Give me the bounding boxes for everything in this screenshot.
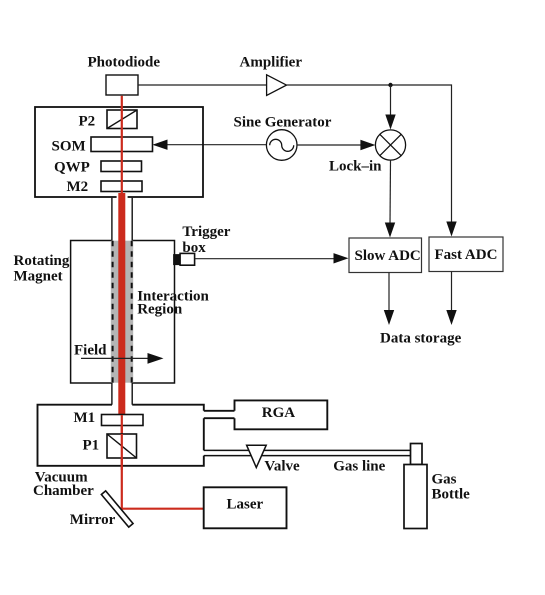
QWP box [101, 161, 142, 172]
arrowhead into mixer top [385, 115, 395, 130]
polarizer P2 [107, 110, 137, 129]
svg-text:Fast ADC: Fast ADC [435, 247, 498, 263]
svg-text:Rotating: Rotating [14, 253, 70, 269]
svg-text:Amplifier: Amplifier [240, 55, 303, 71]
arrowhead into Fast ADC [446, 222, 456, 237]
beam (thick red) through interaction region M2 to M1 [118, 193, 125, 415]
vacuum chamber [38, 405, 204, 466]
beam tube lower section walls [111, 383, 113, 405]
amplifier triangle [267, 75, 287, 96]
arrowhead into Slow ADC [385, 223, 395, 238]
photodiode box [106, 75, 138, 95]
svg-text:QWP: QWP [54, 160, 90, 176]
beam (thin red) laser to mirror [122, 508, 204, 510]
svg-text:Trigger: Trigger [182, 224, 230, 240]
svg-text:Bottle: Bottle [432, 486, 471, 502]
svg-text:Slow ADC: Slow ADC [355, 248, 421, 264]
interaction region gray band [111, 241, 133, 383]
white gap in optics box bottom edge for beam tube [117, 196, 128, 200]
svg-text:Chamber: Chamber [33, 483, 94, 499]
Fast ADC box [429, 237, 503, 272]
svg-text:RGA: RGA [262, 405, 296, 421]
svg-text:SOM: SOM [52, 138, 86, 154]
svg-text:Data storage: Data storage [380, 331, 462, 347]
Slow ADC box [349, 238, 422, 273]
svg-text:P1: P1 [83, 438, 100, 454]
svg-text:Gas: Gas [432, 472, 457, 488]
sine generator circle [266, 130, 297, 161]
svg-text:Sine Generator: Sine Generator [234, 114, 332, 130]
thin red beam inside M1 [121, 415, 123, 434]
svg-text:Gas line: Gas line [333, 459, 385, 475]
field arrow [81, 357, 150, 359]
wire amplifier to top-right corner then down to Fast ADC [287, 85, 452, 224]
svg-text:Valve: Valve [264, 459, 300, 475]
valve [247, 445, 267, 467]
mirror (tilted) [101, 491, 133, 527]
svg-text:Photodiode: Photodiode [88, 55, 161, 71]
arrowhead into Slow ADC left [334, 253, 349, 263]
svg-text:P2: P2 [79, 114, 96, 130]
wire sine generator to mixer [297, 144, 362, 146]
beam tube upper section walls [111, 198, 113, 241]
thin red beam through P1 [121, 434, 123, 470]
SOM box [91, 137, 153, 152]
beam (thin red) from photodiode down through optics [121, 96, 123, 193]
wire trigger box to Slow ADC [195, 258, 335, 260]
laser box [204, 487, 287, 528]
mirror M2 box [101, 181, 142, 192]
wire junction down to mixer [390, 85, 392, 116]
RGA box [235, 400, 328, 429]
svg-text:Lock–in: Lock–in [329, 159, 382, 175]
gas bottle body [404, 465, 427, 529]
junction node [388, 83, 392, 87]
svg-text:M1: M1 [74, 410, 96, 426]
polarizer P1 [107, 434, 137, 458]
arrowhead into mixer left [360, 140, 375, 150]
mirror M1 box [102, 415, 144, 426]
interaction region dashed boundaries [112, 241, 114, 383]
wire photodiode to amplifier [138, 84, 266, 86]
wire SOM to sine generator [154, 144, 266, 146]
beam (thin red) below M1 through P1 down to mirror [121, 415, 123, 510]
svg-text:M2: M2 [67, 179, 89, 195]
wire Slow ADC down arrow [388, 273, 390, 313]
mixer (lock-in) circle with X [375, 130, 405, 160]
svg-text:box: box [182, 240, 206, 256]
arrowhead into SOM [153, 140, 168, 150]
svg-text:Mirror: Mirror [70, 512, 116, 528]
wire Fast ADC down arrow [451, 272, 453, 313]
svg-text:Region: Region [137, 301, 183, 317]
trigger box [174, 255, 181, 265]
gas line rails [204, 449, 411, 451]
svg-text:Magnet: Magnet [14, 269, 63, 285]
svg-text:Laser: Laser [227, 496, 264, 512]
wire mixer down to Slow ADC [389, 160, 392, 225]
svg-text:Field: Field [74, 342, 107, 358]
RGA duct [204, 410, 235, 412]
gas bottle neck [411, 444, 423, 465]
rotating magnet box [71, 241, 175, 384]
optics box (top enclosure) [35, 107, 203, 197]
